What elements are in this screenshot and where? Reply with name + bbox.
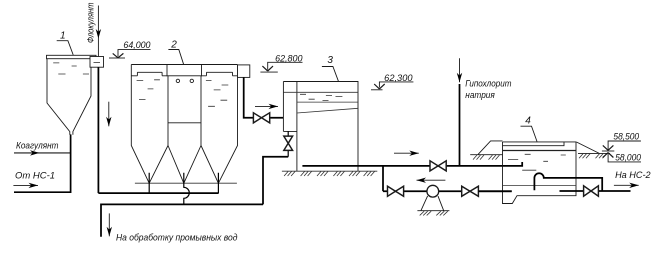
branch to backwash pump line [382, 166, 384, 191]
right berm slope [576, 142, 610, 158]
waste flow arrow down [107, 213, 112, 236]
valve V4 [388, 186, 404, 196]
tank 2 right trough notches [201, 72, 238, 76]
tank 2 hopper bottoms (W) [149, 146, 218, 184]
left berm of reservoir [470, 141, 502, 160]
ground hatch under tank 3 [282, 171, 377, 176]
tank 3 water line [283, 91, 358, 93]
backwash intake pipe inside reservoir [478, 190, 511, 192]
tank 2 outlet box [238, 65, 250, 78]
arrow from NS-1 [13, 183, 38, 188]
elevation mark 62,800 [260, 54, 302, 73]
tank 2 base line [135, 182, 237, 184]
flow arrow down between tank1 and tank2 [106, 102, 111, 127]
flow arrow to NS-2 [614, 183, 639, 188]
tank 2 water dashes right [206, 81, 228, 107]
tank 1 settler body walls [47, 59, 91, 135]
tank 2 feed well nozzle circles [176, 79, 193, 82]
suction hook pipe [534, 173, 602, 191]
tank 2 left trough notches [131, 72, 167, 76]
svg-text:1: 1 [60, 31, 66, 42]
elevation mark 58,500 [602, 132, 641, 151]
svg-text:2: 2 [170, 40, 177, 51]
tank 4 reservoir shell [503, 142, 577, 204]
valve V2 vertical on filter drain [284, 131, 293, 156]
pipe B waste header [101, 204, 263, 236]
valve V5 [462, 186, 479, 196]
tank 3 bed line [297, 101, 358, 103]
backwash pump suction pipe [383, 190, 512, 192]
label 2 leader [168, 50, 183, 65]
svg-text:Гипохлорит: Гипохлорит [465, 79, 511, 89]
tank 4 water dashes [508, 154, 566, 170]
flow arrow to filter [255, 104, 278, 109]
svg-text:На НС-2: На НС-2 [615, 170, 651, 180]
svg-text:От НС-1: От НС-1 [15, 171, 55, 181]
tank 4 water level line [503, 150, 577, 152]
tank 3 filter [283, 82, 358, 172]
tank 4 roof slab [503, 142, 565, 146]
flow arrow after filter [394, 151, 419, 156]
sodium hypochlorite dosing line [457, 58, 462, 166]
label 4 leader [521, 126, 538, 141]
tank 1 settler lid [47, 55, 97, 58]
svg-text:64,000: 64,000 [123, 40, 150, 50]
svg-text:58,500: 58,500 [613, 132, 639, 142]
flow arrow left on pump line [417, 178, 446, 183]
pump circle [427, 185, 439, 197]
pipe tank2 to tank3 [244, 77, 284, 117]
valve V3 [430, 161, 446, 171]
tank 1 water level dashes [53, 63, 89, 74]
valve V6 [584, 186, 599, 196]
pump mount [417, 196, 449, 216]
tank 4 lower line [503, 184, 577, 186]
tank 1 outlet box [90, 57, 104, 68]
outlet pipe with open end [560, 190, 631, 192]
backwash drain pipe [263, 157, 288, 205]
elevation mark 62,300 [371, 73, 413, 90]
svg-text:3: 3 [327, 55, 333, 66]
elevation mark 64,000 [109, 40, 151, 58]
tank 3 water dashes [300, 94, 342, 100]
inlet pipe into reservoir [503, 162, 523, 166]
pipe A sludge header [98, 192, 218, 194]
raw water pipe from NS-1 into tank 1 cone [14, 134, 71, 192]
label 3 leader [322, 67, 339, 82]
tank 2 clarifier outer walls [131, 65, 237, 184]
tank 2 central feed well [167, 65, 202, 146]
svg-text:58,000: 58,000 [615, 153, 641, 163]
main treated water pipe [302, 165, 502, 167]
svg-text:Флокулянт: Флокулянт [86, 2, 97, 43]
tank 2 water dashes left [137, 80, 160, 100]
coagulant inlet line [14, 150, 71, 155]
tank 2 hopper drain drops [149, 173, 218, 193]
svg-text:На обработку промывных вод: На обработку промывных вод [116, 232, 238, 242]
label 1 leader line [57, 41, 73, 55]
elevation mark 58,000 [603, 153, 641, 163]
svg-text:Коагулянт: Коагулянт [16, 140, 59, 150]
flocculant feed line with arrow [96, 6, 101, 57]
valve V1 [253, 113, 269, 123]
tank 3 bed diagonal [297, 108, 358, 113]
middle hopper drain with pipe jump [184, 173, 190, 205]
wire riser tank1 outlet to pipe A [97, 67, 99, 193]
svg-text:4: 4 [525, 115, 531, 126]
svg-text:натрия: натрия [465, 90, 495, 100]
